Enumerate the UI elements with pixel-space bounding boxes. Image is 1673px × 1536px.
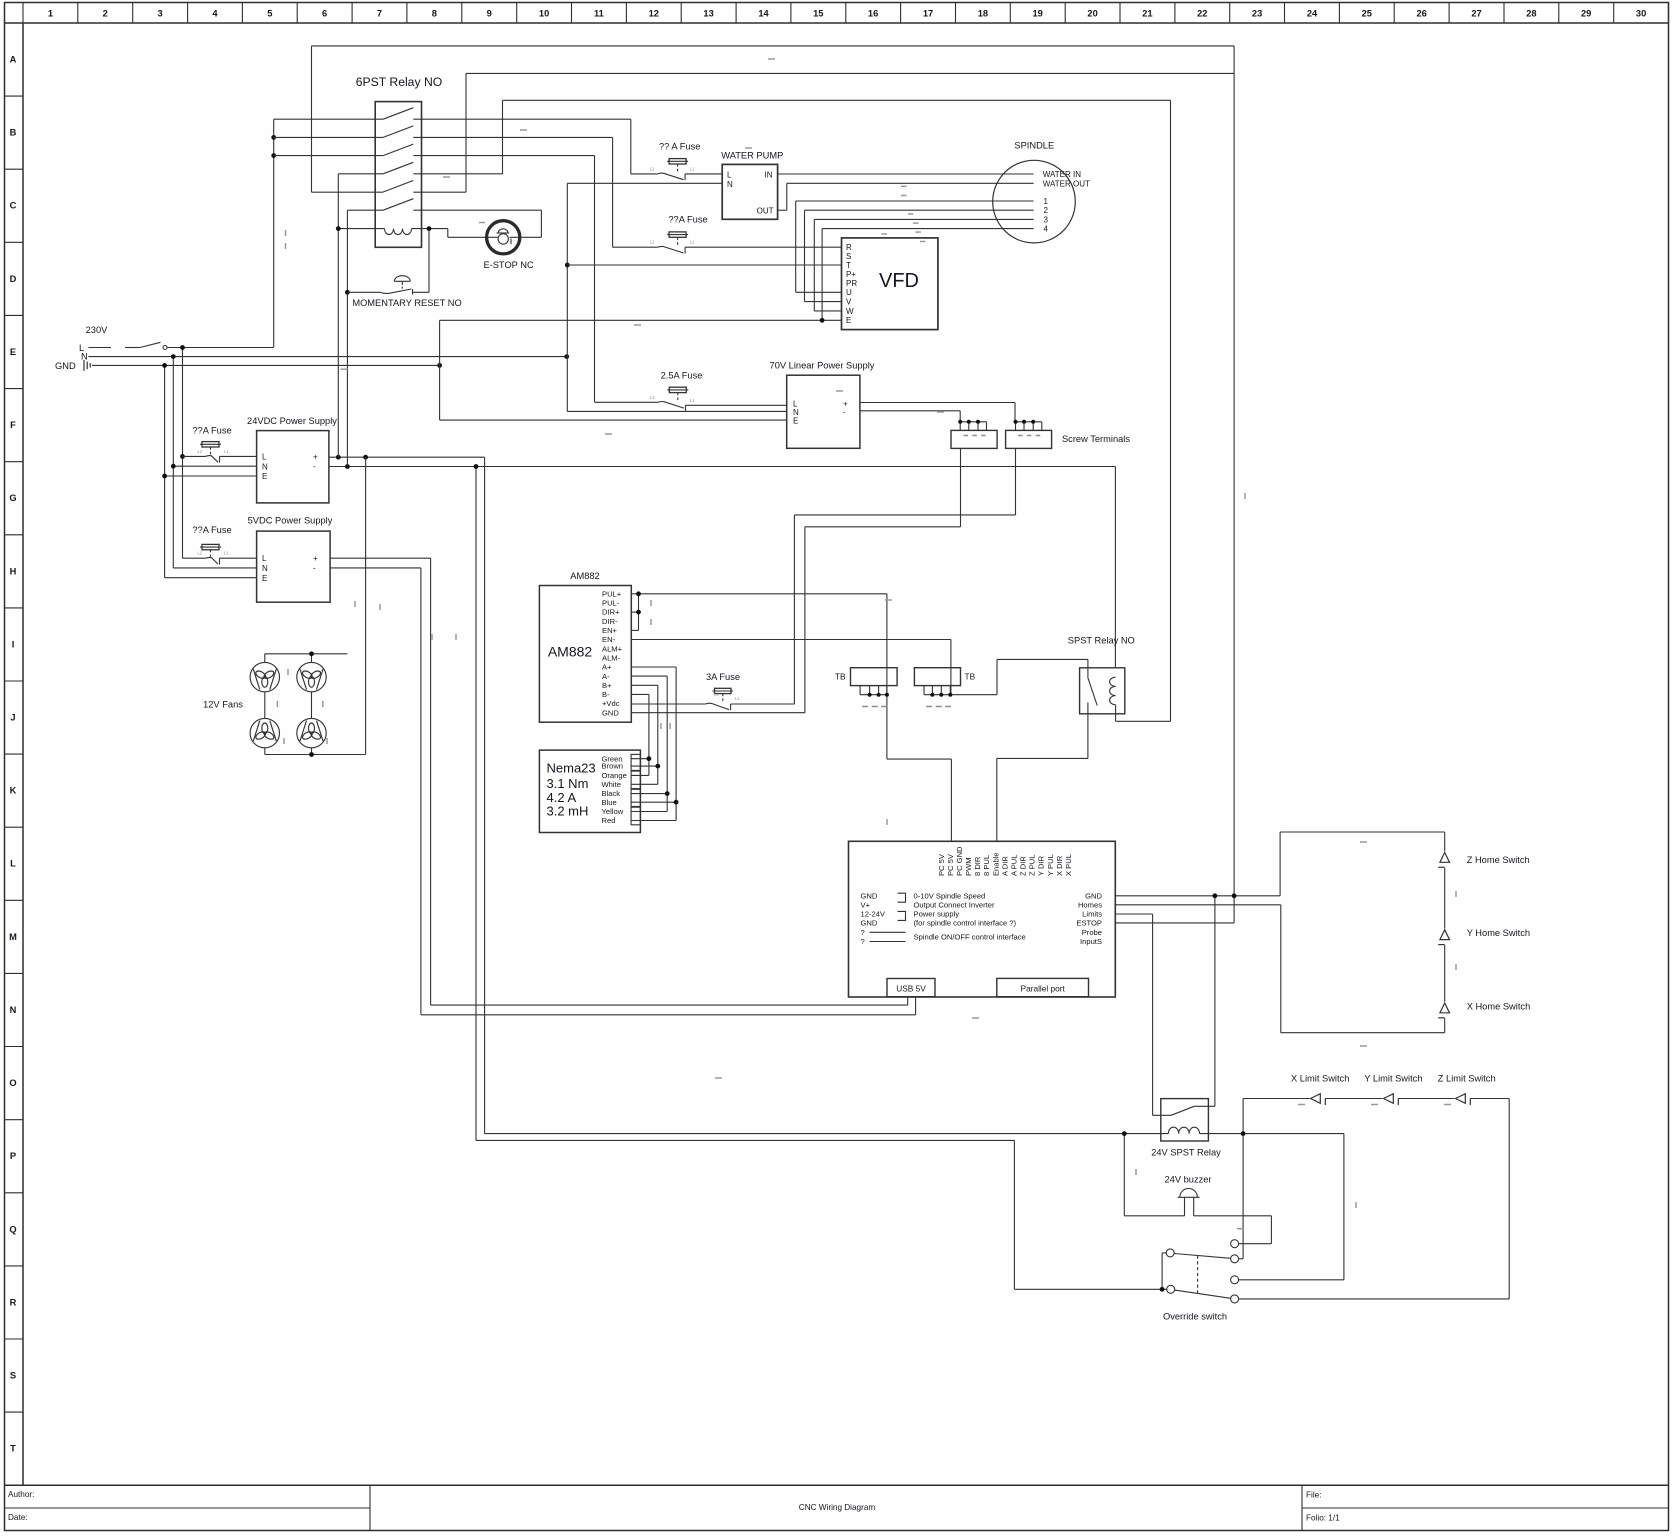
svg-text:24V buzzer: 24V buzzer xyxy=(1164,1175,1211,1185)
svg-text:Q: Q xyxy=(9,1224,16,1234)
svg-text:WATER PUMP: WATER PUMP xyxy=(721,151,783,161)
svg-text:29: 29 xyxy=(1581,9,1591,19)
switch limit xyxy=(1384,1094,1399,1105)
svg-text:Y DIR: Y DIR xyxy=(1037,855,1046,876)
svg-text:O: O xyxy=(9,1078,16,1088)
svg-text:N: N xyxy=(793,408,799,417)
wire motor Blue xyxy=(631,801,676,803)
svg-text:24V SPST Relay: 24V SPST Relay xyxy=(1151,1148,1221,1158)
wire controller GND xyxy=(1115,832,1281,1115)
wire E-STOP right xyxy=(520,236,542,238)
wire PUL+ to TB1 xyxy=(639,593,887,595)
svg-text:MOMENTARY RESET NO: MOMENTARY RESET NO xyxy=(352,298,461,308)
svg-text:1: 1 xyxy=(1044,197,1049,206)
junction xyxy=(336,455,341,460)
mech link dashed xyxy=(1197,1256,1199,1296)
relay pole blade xyxy=(383,199,413,211)
junction xyxy=(820,318,825,323)
svg-text:AM882: AM882 xyxy=(570,571,599,581)
svg-text:L2: L2 xyxy=(198,449,203,454)
svg-text:Probe: Probe xyxy=(1082,928,1102,937)
svg-text:L2: L2 xyxy=(198,551,203,556)
svg-text:L1: L1 xyxy=(690,166,695,171)
svg-text:C: C xyxy=(10,201,17,211)
svg-text:L1: L1 xyxy=(224,449,229,454)
wire top net2 (row5R) xyxy=(466,72,1234,74)
wire GND to screw terminal 1 xyxy=(631,712,805,714)
svg-text:?: ? xyxy=(861,928,865,937)
svg-text:25: 25 xyxy=(1362,9,1372,19)
svg-text:File:: File: xyxy=(1306,1491,1321,1500)
wire 24V plus rail xyxy=(329,457,1116,1289)
svg-text:E: E xyxy=(10,347,16,357)
svg-text:DIR+: DIR+ xyxy=(602,608,620,617)
svg-text:9: 9 xyxy=(487,9,492,19)
svg-text:M: M xyxy=(9,932,17,942)
svg-text:P: P xyxy=(10,1151,16,1161)
wire N drop to PSU N pins xyxy=(172,357,174,467)
svg-text:Z PUL: Z PUL xyxy=(1028,854,1037,876)
svg-text:PR: PR xyxy=(846,279,857,288)
svg-text:R: R xyxy=(10,1297,17,1307)
svg-text:B-: B- xyxy=(602,690,610,699)
wire top net1 (row5L to ESTOP) xyxy=(312,45,1235,47)
svg-text:WATER OUT: WATER OUT xyxy=(1043,179,1090,188)
svg-text:E: E xyxy=(262,574,267,583)
svg-text:Blue: Blue xyxy=(602,798,617,807)
svg-text:15: 15 xyxy=(813,9,823,19)
switch main disconnect on L xyxy=(88,342,160,347)
svg-text:A: A xyxy=(10,55,17,65)
svg-text:GND: GND xyxy=(1085,891,1102,900)
wire VFD U to spindle 1 xyxy=(796,291,842,293)
relay pole blade xyxy=(383,144,413,156)
svg-text:4: 4 xyxy=(212,9,218,19)
fan xyxy=(250,662,279,691)
relay SPST blade xyxy=(1088,678,1097,706)
svg-text:N: N xyxy=(262,462,268,471)
junction xyxy=(437,363,442,368)
svg-text:30: 30 xyxy=(1636,9,1646,19)
wire block2 bottom to 3A fuse riser xyxy=(1015,448,1017,515)
svg-text:230V: 230V xyxy=(86,325,109,335)
svg-text:X Limit Switch: X Limit Switch xyxy=(1291,1074,1349,1084)
svg-text:W: W xyxy=(846,307,854,316)
svg-text:Y Home Switch: Y Home Switch xyxy=(1467,928,1530,938)
svg-text:+: + xyxy=(313,453,318,462)
wire motor Red xyxy=(631,820,676,822)
port Parallel port xyxy=(997,978,1089,996)
terminal block TB2 xyxy=(914,668,960,686)
wire row2 right to fuse2 xyxy=(413,136,612,138)
svg-text:22: 22 xyxy=(1197,9,1207,19)
svg-text:GND: GND xyxy=(861,891,878,900)
junction xyxy=(345,464,350,469)
junction xyxy=(1213,893,1218,898)
junction xyxy=(363,455,368,460)
wire motor Orange xyxy=(631,774,649,776)
svg-text:21: 21 xyxy=(1142,9,1152,19)
svg-text:Y PUL: Y PUL xyxy=(1046,854,1055,876)
junction xyxy=(336,226,341,231)
wire GND to override relay xyxy=(1214,896,1216,1107)
screw terminal block 2 xyxy=(1016,421,1042,423)
svg-text:DIR-: DIR- xyxy=(602,617,618,626)
switch limit xyxy=(1456,1094,1471,1105)
ground symbol GND xyxy=(84,360,90,371)
wire row4 right riser xyxy=(413,173,502,175)
wire block1 bottom to AM882 GND riser xyxy=(794,448,1015,712)
svg-text:Z DIR: Z DIR xyxy=(1019,856,1028,876)
wire controller Homes xyxy=(1115,904,1281,906)
junction xyxy=(665,791,670,796)
svg-text:E: E xyxy=(793,417,798,426)
svg-text:OUT: OUT xyxy=(757,207,774,216)
svg-text:EN+: EN+ xyxy=(602,626,618,635)
wire chain start riser xyxy=(1242,1134,1244,1259)
svg-text:TB: TB xyxy=(835,672,846,682)
junction xyxy=(1160,1287,1165,1292)
svg-text:AM882: AM882 xyxy=(548,644,593,660)
wire N bus xyxy=(88,356,566,358)
relay pole blade xyxy=(383,108,413,120)
wire A- to Black/Yellow xyxy=(631,675,667,677)
svg-text:8 PUL: 8 PUL xyxy=(982,855,991,876)
wire coil to E-STOP xyxy=(447,229,449,238)
wire motor Brown xyxy=(631,765,658,767)
svg-text:N: N xyxy=(727,180,733,189)
svg-text:3A Fuse: 3A Fuse xyxy=(706,672,740,682)
junction xyxy=(171,464,176,469)
wire motor Yellow xyxy=(631,811,667,813)
svg-text:EN-: EN- xyxy=(602,635,616,644)
wire row5 left riser xyxy=(311,46,313,192)
wire motor Green xyxy=(631,758,649,760)
svg-text:SPINDLE: SPINDLE xyxy=(1014,141,1054,151)
terminal block TB1 xyxy=(851,668,898,686)
wire 70V plus to screw terminal 2 xyxy=(860,402,1015,404)
wire row3 left xyxy=(274,155,383,157)
svg-text:?: ? xyxy=(861,937,865,946)
svg-text:24VDC Power Supply: 24VDC Power Supply xyxy=(247,416,337,426)
svg-text:-: - xyxy=(313,564,316,573)
svg-text:Output Connect Inverter: Output Connect Inverter xyxy=(914,900,996,909)
junction xyxy=(1232,893,1237,898)
svg-text:+: + xyxy=(313,554,318,563)
wire 70V N xyxy=(440,403,1015,422)
svg-text:Folio: 1/1: Folio: 1/1 xyxy=(1306,1514,1340,1523)
svg-text:J: J xyxy=(10,713,15,723)
relay pole blade xyxy=(383,181,413,193)
junction xyxy=(1241,1131,1246,1136)
motor tab xyxy=(631,754,640,770)
svg-text:L: L xyxy=(10,859,16,869)
svg-text:0-10V Spindle Speed: 0-10V Spindle Speed xyxy=(914,891,986,900)
junction xyxy=(636,591,641,596)
svg-text:Parallel port: Parallel port xyxy=(1021,984,1066,994)
svg-text:T: T xyxy=(846,261,851,270)
svg-text:12-24V: 12-24V xyxy=(861,910,886,919)
svg-text:IN: IN xyxy=(765,170,773,179)
svg-text:N: N xyxy=(262,564,268,573)
switch home xyxy=(1438,930,1449,945)
VFD xyxy=(842,238,938,330)
svg-text:B+: B+ xyxy=(602,681,612,690)
svg-text:Orange: Orange xyxy=(602,771,627,780)
fuse F3 ??A (24V) xyxy=(183,442,257,463)
blade lower xyxy=(1175,1290,1231,1298)
svg-text:CNC Wiring Diagram: CNC Wiring Diagram xyxy=(799,1503,876,1512)
wire row1 left xyxy=(274,46,1234,896)
wire minus to SPST coil riser xyxy=(1114,467,1116,668)
svg-text:I: I xyxy=(12,639,15,649)
port USB 5V xyxy=(887,979,935,997)
svg-text:ALM+: ALM+ xyxy=(602,644,623,653)
svg-text:VFD: VFD xyxy=(879,270,919,292)
svg-text:-: - xyxy=(843,407,846,416)
wire top net3 (row4R to SPST coil) xyxy=(503,99,1171,101)
relay coil 6PST xyxy=(338,228,384,230)
svg-text:E-STOP NC: E-STOP NC xyxy=(483,260,534,270)
svg-text:GND: GND xyxy=(602,708,619,717)
relay pole blade xyxy=(383,162,413,174)
svg-text:?? A Fuse: ?? A Fuse xyxy=(659,142,700,152)
blade upper xyxy=(1174,1254,1231,1259)
svg-text:+Vdc: +Vdc xyxy=(602,699,620,708)
junction xyxy=(162,474,167,479)
svg-text:Date:: Date: xyxy=(8,1513,28,1522)
svg-text:Author:: Author: xyxy=(8,1490,34,1499)
junction xyxy=(180,345,185,350)
svg-text:5VDC Power Supply: 5VDC Power Supply xyxy=(248,516,333,526)
svg-text:N: N xyxy=(10,1005,17,1015)
home switch loop box xyxy=(1280,832,1445,1033)
wire 70V E from GND xyxy=(440,419,787,421)
svg-text:X PUL: X PUL xyxy=(1064,854,1073,876)
junction xyxy=(647,756,652,761)
svg-text:??A Fuse: ??A Fuse xyxy=(192,525,231,535)
svg-text:B: B xyxy=(10,128,17,138)
svg-text:L2: L2 xyxy=(650,240,655,245)
svg-text:4: 4 xyxy=(1044,225,1049,234)
wire L bus xyxy=(88,119,566,578)
motor Nema23 xyxy=(539,750,640,832)
wire pump N xyxy=(567,174,1033,411)
svg-text:(for spindle control interface: (for spindle control interface ?) xyxy=(914,919,1017,928)
svg-text:8: 8 xyxy=(432,9,437,19)
svg-text:L1: L1 xyxy=(690,398,695,403)
wire row3 right to 2.5A fuse xyxy=(413,155,594,157)
svg-text:Y Limit Switch: Y Limit Switch xyxy=(1364,1074,1422,1084)
svg-text:L: L xyxy=(262,453,267,462)
svg-text:3.2 mH: 3.2 mH xyxy=(547,804,589,819)
wire pump OUT to spindle WATER OUT xyxy=(778,209,787,211)
svg-text:Limits: Limits xyxy=(1082,910,1102,919)
fuse F1 ??A xyxy=(631,159,722,181)
svg-text:SPST Relay NO: SPST Relay NO xyxy=(1068,636,1135,646)
svg-text:Red: Red xyxy=(602,816,616,825)
svg-text:6PST Relay NO: 6PST Relay NO xyxy=(356,75,442,89)
svg-text:13: 13 xyxy=(703,9,713,19)
svg-text:70V Linear Power Supply: 70V Linear Power Supply xyxy=(770,361,875,371)
svg-text:L2: L2 xyxy=(650,395,655,400)
svg-text:5: 5 xyxy=(267,9,272,19)
svg-text:8 DIR: 8 DIR xyxy=(973,856,982,876)
svg-text:Z Home Switch: Z Home Switch xyxy=(1467,855,1530,865)
wire buzzer drop xyxy=(1123,1134,1125,1216)
relay 24V coil line xyxy=(485,1133,1169,1135)
motor tab xyxy=(631,771,640,789)
wire row4 left to coil xyxy=(338,173,383,175)
wire 5V plus to USB xyxy=(330,558,916,1015)
fan xyxy=(297,662,326,691)
svg-text:USB 5V: USB 5V xyxy=(896,984,926,994)
wire GND bus xyxy=(92,364,440,366)
wire B- to Green/Orange xyxy=(631,693,649,695)
svg-text:S: S xyxy=(10,1371,16,1381)
svg-text:27: 27 xyxy=(1471,9,1481,19)
wire limit chain xyxy=(1243,1099,1509,1299)
wire 5V minus to USB xyxy=(330,567,421,569)
svg-text:10: 10 xyxy=(539,9,549,19)
switch limit xyxy=(1311,1094,1326,1105)
svg-text:L2: L2 xyxy=(650,166,655,171)
svg-text:17: 17 xyxy=(923,9,933,19)
motor tab xyxy=(631,789,640,806)
wire momentary right leg xyxy=(428,229,430,293)
svg-text:3: 3 xyxy=(1044,215,1049,224)
fan xyxy=(250,718,279,747)
wire N tap to 24V PSU xyxy=(173,465,256,467)
motor tab xyxy=(631,807,640,825)
svg-text:E: E xyxy=(846,316,851,325)
svg-text:A-: A- xyxy=(602,672,610,681)
svg-text:L2: L2 xyxy=(714,692,719,697)
fuse F4 ??A (5V) xyxy=(183,544,257,564)
svg-text:V+: V+ xyxy=(861,900,871,909)
wire controller Limits xyxy=(1115,913,1152,915)
wire A+ to Blue/Red xyxy=(631,666,676,668)
svg-text:7: 7 xyxy=(377,9,382,19)
svg-text:12: 12 xyxy=(649,9,659,19)
svg-text:R: R xyxy=(846,243,852,252)
junction xyxy=(565,263,570,268)
switch home xyxy=(1438,1003,1449,1018)
svg-text:2.5A Fuse: 2.5A Fuse xyxy=(661,371,703,381)
wire motor White xyxy=(631,783,658,785)
svg-text:P+: P+ xyxy=(846,270,856,279)
svg-text:T: T xyxy=(10,1444,16,1454)
svg-text:White: White xyxy=(602,780,621,789)
junction xyxy=(636,610,641,615)
svg-text:L: L xyxy=(727,170,732,179)
fuse F5 2.5A xyxy=(595,387,787,411)
wire EN- to TB2 xyxy=(631,639,951,641)
wire row6 right to E-STOP xyxy=(413,209,541,211)
svg-text:A PUL: A PUL xyxy=(1009,854,1018,876)
wire GND drop to PSU E pins xyxy=(164,365,166,476)
svg-text:V: V xyxy=(846,298,852,307)
relay pole blade xyxy=(383,126,413,137)
relay 24V SPST xyxy=(1161,1099,1209,1141)
wire SPST switch bottom to Enable xyxy=(997,757,1088,759)
svg-text:16: 16 xyxy=(868,9,878,19)
svg-text:6: 6 xyxy=(322,9,327,19)
junction xyxy=(171,354,176,359)
svg-text:PUL+: PUL+ xyxy=(602,589,622,598)
svg-text:Nema23: Nema23 xyxy=(547,761,596,776)
svg-text:InputS: InputS xyxy=(1080,937,1102,946)
svg-text:ALM-: ALM- xyxy=(602,653,621,662)
svg-text:Homes: Homes xyxy=(1078,900,1102,909)
wire 24V minus rail xyxy=(329,466,1116,468)
svg-text:2: 2 xyxy=(1044,206,1049,215)
wire VFD W to spindle 3 xyxy=(814,310,841,312)
svg-text:14: 14 xyxy=(758,9,769,19)
junction xyxy=(564,354,569,359)
wire L riser to relay rows 1-3 xyxy=(273,119,275,347)
svg-text:H: H xyxy=(10,566,17,576)
svg-text:28: 28 xyxy=(1526,9,1536,19)
svg-text:S: S xyxy=(846,252,851,261)
svg-text:2: 2 xyxy=(103,9,108,19)
screw terminal block 1 xyxy=(951,430,997,448)
svg-text:D: D xyxy=(10,274,17,284)
wire row2 left xyxy=(274,136,383,138)
svg-text:11: 11 xyxy=(594,9,604,19)
svg-text:G: G xyxy=(9,493,16,503)
svg-text:20: 20 xyxy=(1087,9,1097,19)
svg-text:-: - xyxy=(313,462,316,471)
wire VFD E to spindle 4 and GND xyxy=(440,319,842,321)
svg-text:12V Fans: 12V Fans xyxy=(203,700,243,710)
relay SPST coil xyxy=(1110,677,1116,705)
junction xyxy=(271,153,276,158)
svg-text:3: 3 xyxy=(158,9,163,19)
wire row5 right riser xyxy=(413,191,466,193)
junction xyxy=(345,290,350,295)
wire L drop to 24V fuse and 5V fuse xyxy=(182,348,184,457)
svg-text:F: F xyxy=(10,420,16,430)
svg-text:Z Limit Switch: Z Limit Switch xyxy=(1438,1074,1496,1084)
svg-text:PC 5V: PC 5V xyxy=(946,853,955,876)
svg-text:E: E xyxy=(262,472,267,481)
svg-text:L1: L1 xyxy=(690,240,695,245)
svg-text:X DIR: X DIR xyxy=(1055,855,1064,876)
svg-text:GND: GND xyxy=(861,919,878,928)
wire controller ESTOP xyxy=(1115,922,1234,924)
junction xyxy=(162,363,167,368)
svg-text:A DIR: A DIR xyxy=(1000,856,1009,876)
svg-text:Power supply: Power supply xyxy=(914,910,960,919)
svg-text:1: 1 xyxy=(48,9,53,19)
svg-text:Override switch: Override switch xyxy=(1163,1312,1227,1322)
svg-text:ESTOP: ESTOP xyxy=(1076,919,1102,928)
svg-text:Screw Terminals: Screw Terminals xyxy=(1062,434,1130,444)
switch home xyxy=(1438,853,1449,868)
svg-text:23: 23 xyxy=(1252,9,1262,19)
svg-text:PC GND: PC GND xyxy=(955,846,964,876)
button E-STOP NC xyxy=(487,221,520,254)
svg-text:L: L xyxy=(262,554,267,563)
switch MOMENTARY RESET NO xyxy=(347,276,412,295)
wire jumper PUL+/DIR+/EN+ xyxy=(631,594,951,821)
fuse F2 ??A xyxy=(613,232,842,254)
svg-text:L1: L1 xyxy=(224,551,229,556)
svg-text:PUL-: PUL- xyxy=(602,599,620,608)
svg-text:GND: GND xyxy=(55,361,76,371)
controller board xyxy=(849,841,1116,997)
